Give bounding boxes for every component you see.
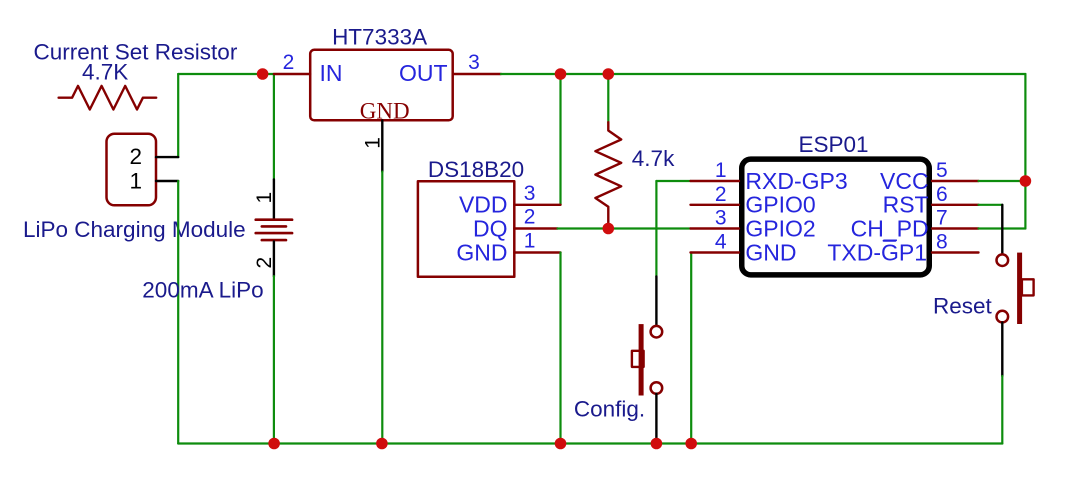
svg-text:GPIO2: GPIO2 (745, 215, 815, 241)
svg-text:DS18B20: DS18B20 (428, 157, 524, 182)
svg-text:4: 4 (715, 231, 727, 254)
wire top-left horizontal (178, 73, 274, 75)
wire reset top black (1001, 205, 1003, 255)
svg-text:Current Set Resistor: Current Set Resistor (34, 40, 238, 65)
pin 1 of J1 (156, 180, 178, 182)
svg-text:IN: IN (320, 60, 343, 86)
svg-text:4.7K: 4.7K (82, 59, 128, 84)
svg-text:ESP01: ESP01 (798, 132, 868, 157)
switch SW1 Config pin circle bottom (651, 382, 663, 394)
pin 3 of U3 (691, 227, 740, 229)
svg-text:3: 3 (524, 182, 536, 205)
wire battery top vertical (273, 74, 275, 179)
svg-text:Config.: Config. (574, 397, 645, 422)
svg-text:4.7k: 4.7k (632, 146, 675, 171)
battery BT1 bottom pin (273, 241, 275, 276)
junction rail config (651, 438, 663, 450)
switch SW1 actuator bar (639, 324, 644, 395)
pin GND of U2 (514, 251, 560, 253)
wire right column vertical (1024, 74, 1026, 229)
svg-text:1: 1 (130, 169, 143, 194)
pin GND of U1 black (381, 120, 383, 171)
wire VDD column vertical (559, 74, 561, 205)
junction rail U2 gnd (555, 438, 567, 450)
svg-text:VDD: VDD (459, 192, 508, 218)
wire RXD net horizontal (656, 180, 690, 182)
pin IN of U1 (274, 73, 310, 75)
battery BT1 plates (256, 220, 292, 240)
pin 5 of U3 (932, 180, 979, 182)
svg-text:5: 5 (936, 159, 948, 182)
svg-text:8: 8 (936, 231, 948, 254)
wire pullup column green top (607, 74, 609, 122)
wire DQ net to ESP (558, 227, 691, 229)
junction VCC right column (1020, 175, 1032, 187)
svg-text:LiPo Charging Module: LiPo Charging Module (23, 217, 246, 242)
svg-text:1: 1 (715, 159, 727, 182)
svg-text:RXD-GP3: RXD-GP3 (745, 168, 847, 194)
svg-text:VCC: VCC (880, 168, 929, 194)
svg-text:1: 1 (361, 137, 384, 149)
pin OUT of U1 (453, 73, 501, 75)
resistor R2 4.7k vertical (595, 122, 621, 228)
switch SW1 Config pin circle top (651, 326, 663, 338)
junction node VIN (257, 68, 269, 80)
svg-text:7: 7 (936, 207, 948, 230)
wire ESP GND pin4 vertical (690, 253, 692, 444)
svg-text:3: 3 (715, 207, 727, 230)
wire ground rail (178, 442, 1002, 444)
pin 2 of U3 (691, 204, 740, 206)
wire RXD net vertical to config (655, 181, 657, 276)
svg-text:200mA LiPo: 200mA LiPo (142, 278, 263, 303)
switch SW2 Reset pin circle top (997, 254, 1009, 266)
svg-text:GND: GND (456, 239, 507, 265)
wire conn pin2 vertical (177, 74, 179, 157)
pin 1 of U3 (691, 180, 740, 182)
svg-text:2: 2 (130, 144, 143, 169)
pin DQ of U2 (514, 227, 557, 229)
module U3 ESP01 box (742, 159, 930, 275)
junction R2 bottom on DQ net (603, 223, 615, 235)
junction rail battery (268, 438, 280, 450)
svg-text:6: 6 (936, 183, 948, 206)
svg-text:OUT: OUT (399, 60, 448, 86)
wire config top black (655, 276, 657, 326)
wire U2 GND down to rail (559, 253, 561, 444)
svg-text:2: 2 (715, 183, 727, 206)
wire reset bottom green (1001, 376, 1003, 444)
svg-text:1: 1 (524, 230, 536, 253)
wire battery bottom to rail (273, 276, 275, 443)
battery BT1 top pin (273, 179, 275, 218)
svg-text:Reset: Reset (933, 294, 993, 319)
pin VDD of U2 (514, 204, 560, 206)
svg-text:2: 2 (253, 257, 276, 269)
switch SW1 actuator plunger rect (632, 351, 644, 367)
svg-text:GPIO0: GPIO0 (745, 192, 815, 218)
regulator U1 HT7333A box (310, 50, 453, 121)
switch SW2 actuator bar (1017, 253, 1022, 324)
sensor U2 DS18B20 box (418, 181, 514, 276)
pin 6 of U3 (932, 204, 979, 206)
resistor R1 4.7K horizontal (59, 86, 157, 110)
wire U1 GND to rail (381, 172, 383, 444)
wire RST green (979, 204, 1003, 206)
wire CH_PD horizontal (979, 227, 1026, 229)
svg-text:2: 2 (524, 206, 536, 229)
switch SW2 actuator plunger rect (1022, 279, 1034, 295)
svg-text:DQ: DQ (473, 215, 508, 241)
svg-text:1: 1 (253, 192, 276, 204)
wire config bottom black (655, 394, 657, 444)
junction at pullup column (603, 68, 615, 80)
connector J1 LiPo Charging Module box (107, 134, 157, 206)
wire VCC to right column (979, 180, 1026, 182)
pin 2 of J1 (156, 156, 178, 158)
wire conn pin1 down to rail (177, 181, 179, 444)
svg-text:CH_PD: CH_PD (851, 215, 929, 241)
junction at VDD column (555, 68, 567, 80)
wire 3.3V top rail (501, 73, 1025, 75)
switch SW2 Reset pin circle bottom (997, 311, 1009, 323)
wire reset bottom black (1001, 322, 1003, 376)
junction rail U1 gnd (376, 438, 388, 450)
pin 4 of U3 (691, 251, 740, 253)
overline over G of TXD-GP1 (884, 240, 896, 242)
svg-text:2: 2 (283, 51, 295, 74)
svg-text:TXD-GP1: TXD-GP1 (827, 239, 927, 265)
svg-text:GND: GND (745, 239, 796, 265)
pin 7 of U3 (932, 227, 979, 229)
svg-text:3: 3 (468, 51, 480, 74)
svg-text:HT7333A: HT7333A (332, 24, 427, 49)
svg-text:GND: GND (360, 99, 410, 124)
pin 8 of U3 (932, 251, 979, 253)
svg-text:RST: RST (883, 192, 929, 218)
junction rail ESP gnd (685, 438, 697, 450)
